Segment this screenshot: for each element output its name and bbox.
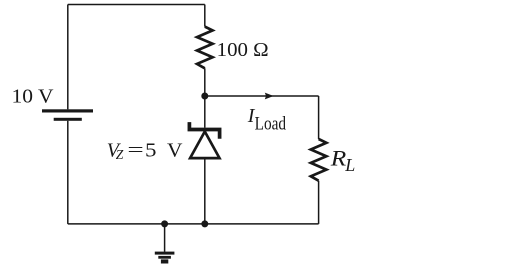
junction dot bottom (zener anode to rail)	[201, 220, 208, 227]
ground bar 2	[158, 256, 171, 259]
ground bar 3	[161, 259, 168, 263]
junction dot ground	[161, 220, 168, 227]
label R_L	[330, 146, 356, 175]
svg-text:L: L	[344, 155, 355, 175]
svg-text:Z: Z	[116, 147, 124, 162]
svg-text:=: =	[127, 140, 143, 162]
resistor RL	[311, 139, 327, 181]
wire bottom rail to battery negative	[67, 121, 69, 224]
node A junction dot	[201, 93, 208, 100]
resistor R1 100 Ohm	[197, 27, 213, 69]
svg-text:5: 5	[145, 139, 157, 161]
label V_Z = 5 V	[107, 139, 183, 162]
wire node A to zener cathode	[204, 96, 206, 128]
zener diode D1 cathode bar	[189, 122, 219, 139]
svg-text:Load: Load	[255, 114, 287, 135]
svg-text:100 Ω: 100 Ω	[217, 39, 269, 61]
battery V1 short plate (negative)	[54, 118, 82, 121]
wire load branch vertical down to RL	[318, 96, 320, 139]
wire top rail to resistor R1	[204, 5, 206, 27]
battery V1 long plate (positive)	[42, 109, 93, 112]
ground bar 1	[155, 252, 175, 255]
wire zener anode to bottom rail	[204, 158, 206, 224]
wire ground stub	[164, 224, 166, 252]
wire bottom rail	[68, 223, 319, 225]
wire top rail	[68, 4, 205, 6]
current arrow I_Load head	[265, 93, 274, 100]
wire top-left vertical (source to top rail)	[67, 5, 69, 110]
svg-text:V: V	[167, 139, 183, 161]
wire RL to bottom rail	[318, 181, 320, 224]
wire resistor R1 to node A	[204, 68, 206, 96]
wire node A to load branch	[205, 95, 319, 97]
label I_Load	[247, 105, 287, 135]
svg-text:10 V: 10 V	[12, 86, 55, 108]
zener diode D1 anode triangle	[190, 132, 219, 159]
